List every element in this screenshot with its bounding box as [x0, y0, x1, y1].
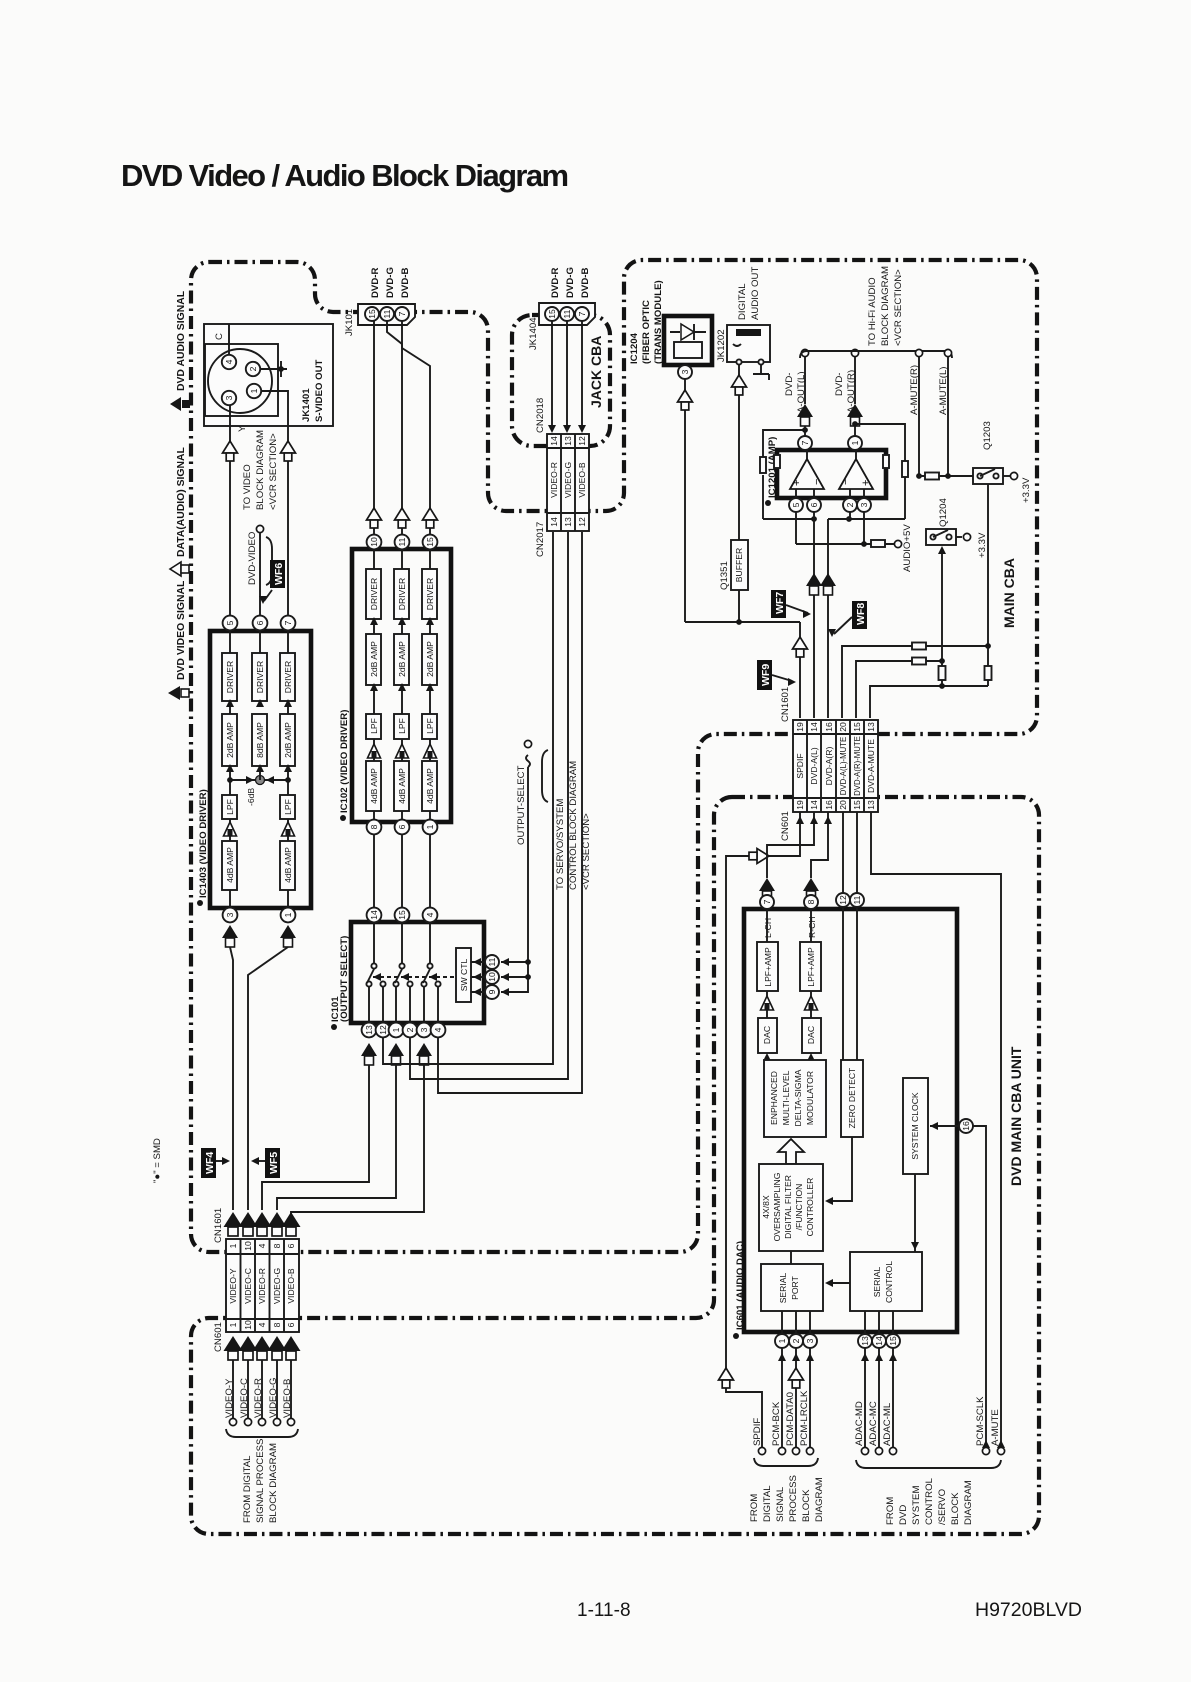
- net names VIDEO-Y VIDEO-C VIDEO-R VIDEO-G VIDEO-B: [228, 1268, 296, 1305]
- svg-text:SIGNAL PROCESS: SIGNAL PROCESS: [255, 1439, 266, 1523]
- svg-text:DVD-: DVD-: [834, 373, 845, 396]
- svg-text:VIDEO-B: VIDEO-B: [286, 1268, 296, 1304]
- svg-text:FROM: FROM: [885, 1497, 896, 1525]
- svg-text:LPF+AMP: LPF+AMP: [806, 947, 816, 987]
- svg-text:SYSTEM: SYSTEM: [911, 1486, 922, 1525]
- IC101 pin 2: [403, 1023, 418, 1038]
- svg-text:SYSTEM CLOCK: SYSTEM CLOCK: [910, 1092, 920, 1160]
- pin 11 circle: [485, 955, 499, 969]
- svg-text:11: 11: [562, 309, 572, 318]
- CN2017 pin numbers 14 13 12: [549, 517, 587, 527]
- svg-text:OVERSAMPLING: OVERSAMPLING: [772, 1172, 782, 1241]
- IC102 pin 6: [395, 820, 410, 835]
- svg-text:12: 12: [378, 1025, 388, 1035]
- signal arrow on IC1204 line: [678, 390, 693, 410]
- wire IC1403 pin3 to CN1601 pin1: [230, 947, 233, 1210]
- ground at JK1202: [753, 364, 769, 380]
- +3.3V terminal at Q1204: [956, 532, 988, 558]
- block 2dB AMP (B): [422, 634, 437, 685]
- wire pin7 to LPF+AMP L: [766, 909, 768, 942]
- label IC1201 (AMP): [765, 437, 778, 506]
- svg-text:DVD-A-MUTE: DVD-A-MUTE: [866, 739, 876, 793]
- svg-text:1: 1: [850, 440, 860, 445]
- block DRIVER (B): [422, 569, 437, 619]
- IC1204 pin 3: [678, 365, 692, 379]
- svg-text:15: 15: [397, 910, 407, 920]
- IC601 pin 12: [836, 893, 850, 907]
- wire IC102 pin1 to IC101 pin4: [429, 834, 431, 908]
- svg-text:11: 11: [397, 537, 407, 546]
- svg-text:6: 6: [809, 502, 819, 507]
- svg-text:TO Hi-Fi AUDIO: TO Hi-Fi AUDIO: [867, 277, 878, 346]
- svg-text:3: 3: [859, 502, 869, 507]
- op-amp/IC IC102 video driver box: [352, 549, 451, 822]
- wire pin2 to shell: [260, 361, 287, 377]
- IC1403 mid-chain wire: [259, 631, 261, 766]
- IC1403 pin 1: [281, 908, 296, 923]
- IC102 pin 11: [395, 535, 410, 550]
- label DIGITAL AUDIO OUT: [737, 267, 761, 320]
- svg-text:R-CH: R-CH: [807, 917, 817, 938]
- svg-text:VIDEO-R: VIDEO-R: [549, 462, 559, 498]
- svg-text:DAC: DAC: [806, 1026, 816, 1044]
- svg-text:8: 8: [369, 824, 379, 829]
- svg-text:LPF: LPF: [397, 718, 407, 734]
- label IC102 (VIDEO DRIVER): [339, 710, 350, 821]
- svg-text:16: 16: [824, 722, 834, 732]
- svg-text:BLOCK: BLOCK: [801, 1489, 812, 1522]
- wire C return line down to IC1403 pin7: [287, 425, 289, 616]
- svg-text:DVD: DVD: [898, 1505, 909, 1525]
- block 4dB AMP (G): [394, 761, 409, 811]
- svg-text:6: 6: [255, 620, 265, 625]
- wire CN601 pin16 to IC601 pin8: [803, 812, 832, 900]
- svg-text:S-VIDEO OUT: S-VIDEO OUT: [314, 359, 325, 422]
- svg-text:ADAC-MC: ADAC-MC: [868, 1401, 879, 1446]
- op-amp/IC IC1403 video driver box: [210, 631, 311, 908]
- waveform label WF4: [201, 1148, 230, 1178]
- input terminal PCM-DATA0: [785, 1392, 800, 1455]
- S-video connector body: [205, 344, 278, 416]
- svg-text:4dB AMP: 4dB AMP: [225, 847, 235, 883]
- wire CN601 pin14 to IC601 pin7: [759, 812, 818, 900]
- svg-text:DVD-B: DVD-B: [400, 268, 411, 298]
- signal arrow on DVD-A(L): [806, 573, 822, 595]
- svg-text:15: 15: [888, 1336, 898, 1346]
- block DRIVER (G): [394, 569, 409, 619]
- svg-text:1: 1: [425, 824, 435, 829]
- svg-text:15: 15: [547, 309, 557, 319]
- svg-text:WF8: WF8: [855, 603, 867, 625]
- svg-text:LPF: LPF: [283, 799, 293, 815]
- wire PCM-SCLK to pin16: [973, 1126, 986, 1447]
- svg-text:PCM-BCK: PCM-BCK: [771, 1401, 782, 1446]
- S-video pin 1: [247, 384, 261, 398]
- svg-text:3: 3: [225, 912, 235, 917]
- wires pins 12 11 into zero detect: [843, 907, 857, 1060]
- op-amp/IC IC1204 fiber optic trans module: [664, 316, 712, 365]
- svg-text:AUDIO+5V: AUDIO+5V: [902, 524, 913, 572]
- svg-text:8: 8: [806, 899, 816, 904]
- IC1403 pin 7: [281, 616, 296, 631]
- svg-text:14: 14: [549, 517, 559, 527]
- shell tie dot: [278, 366, 284, 372]
- svg-text:VIDEO-R: VIDEO-R: [253, 1378, 264, 1418]
- wire node to mid chain: [259, 766, 261, 780]
- input terminal PCM-BCK: [771, 1401, 786, 1454]
- svg-text:CONTROLLER: CONTROLLER: [805, 1178, 815, 1237]
- wire pin1 to box bottom exit: [261, 391, 288, 425]
- svg-text:4: 4: [224, 359, 234, 364]
- bracket TO Hi-Fi AUDIO: [800, 351, 952, 358]
- svg-text:JK1202: JK1202: [716, 329, 727, 362]
- svg-text:+: +: [860, 480, 872, 486]
- svg-text:11: 11: [382, 309, 392, 318]
- svg-text:WF5: WF5: [268, 1152, 280, 1174]
- svg-text:A-MUTE(R): A-MUTE(R): [909, 365, 920, 415]
- svg-text:DRIVER: DRIVER: [425, 578, 435, 610]
- signal arrow on SPDIF horizontal: [749, 849, 769, 864]
- svg-text:1: 1: [283, 912, 293, 917]
- svg-text:Q1203: Q1203: [982, 421, 993, 450]
- label TO VIDEO BLOCK DIAGRAM VCR SECTION: [242, 430, 279, 510]
- transistor Q1203 mute switch: [973, 421, 1003, 484]
- signal arrow below IC1403 pin1: [280, 925, 296, 947]
- svg-text:LPF: LPF: [425, 718, 435, 734]
- S-video pin 3: [222, 391, 236, 405]
- feedback network left: [760, 427, 817, 522]
- input terminal VIDEO-R: [253, 1378, 266, 1426]
- op-amp triangle R: [839, 459, 873, 489]
- switch 1: [366, 922, 385, 1023]
- svg-text:1: 1: [228, 1322, 238, 1327]
- svg-text:4: 4: [257, 1322, 267, 1327]
- svg-text:IC102 (VIDEO DRIVER): IC102 (VIDEO DRIVER): [339, 710, 350, 813]
- input terminal ADAC-MC: [868, 1401, 883, 1454]
- block LPF (Y): [222, 795, 237, 819]
- svg-text:6: 6: [397, 824, 407, 829]
- IC601 pin 15: [886, 1334, 900, 1348]
- block DAC L: [758, 1018, 777, 1053]
- wire JK1404 pin15 to CN2018: [548, 321, 556, 433]
- svg-text:10: 10: [487, 972, 497, 982]
- label IC101 (OUTPUT SELECT): [330, 936, 350, 1030]
- svg-text:VIDEO-G: VIDEO-G: [563, 462, 573, 499]
- svg-text:1: 1: [777, 1338, 787, 1343]
- svg-text:CONTROL: CONTROL: [924, 1477, 935, 1525]
- svg-text:3: 3: [680, 369, 690, 374]
- IC1201 pin 5: [789, 498, 803, 512]
- svg-text:/SERVO: /SERVO: [937, 1489, 948, 1525]
- svg-text:SIGNAL: SIGNAL: [775, 1486, 786, 1522]
- svg-text:DRIVER: DRIVER: [225, 661, 235, 693]
- wire PCM-LRCLK: [806, 1348, 814, 1447]
- waveform label WF7: [771, 590, 811, 618]
- svg-text:JK101: JK101: [344, 309, 355, 336]
- svg-text:CN601: CN601: [780, 811, 791, 841]
- connector JK101: [344, 304, 415, 336]
- svg-text:1-11-8: 1-11-8: [577, 1600, 631, 1621]
- IC601 pin 2: [789, 1334, 803, 1348]
- CN1601 left pin numbers 1 10 4 8 6: [228, 1241, 296, 1251]
- IC1201 pin 3: [857, 498, 871, 512]
- wires CN601 to input terminals: [233, 1360, 291, 1418]
- svg-text:15: 15: [852, 722, 862, 732]
- svg-text:LPF: LPF: [225, 799, 235, 815]
- svg-text:SPDIF: SPDIF: [795, 753, 805, 778]
- wire JK1404 pin11 to CN2018: [563, 321, 571, 433]
- wire IC101 pin3 to CN1601 pin6: [291, 1065, 424, 1214]
- svg-text:A-MUTE(L): A-MUTE(L): [938, 367, 949, 416]
- svg-text:15: 15: [367, 309, 377, 319]
- output terminal A-MUTE(L): [938, 349, 952, 476]
- signal arrow on JK1202 line: [732, 375, 747, 395]
- svg-text:CONTROL BLOCK DIAGRAM: CONTROL BLOCK DIAGRAM: [568, 761, 579, 890]
- arrow glyph for DVD VIDEO SIGNAL: [168, 686, 189, 700]
- wire op-amp pin stubs: [796, 450, 864, 498]
- wire ADAC-MC: [875, 1348, 883, 1447]
- svg-text:2dB AMP: 2dB AMP: [225, 722, 235, 758]
- block DAC R: [802, 1018, 821, 1053]
- waveform label WF6: [259, 560, 285, 604]
- svg-text:SW CTL: SW CTL: [459, 959, 469, 992]
- svg-text:IC1403 (VIDEO DRIVER): IC1403 (VIDEO DRIVER): [198, 789, 209, 898]
- IC1201 pin 1: [848, 436, 862, 450]
- decoupling resistor left edge: [774, 455, 780, 468]
- svg-text:ADAC-MD: ADAC-MD: [854, 1401, 865, 1446]
- svg-text:WF7: WF7: [774, 592, 786, 614]
- svg-text:MULTI-LEVEL: MULTI-LEVEL: [781, 1070, 791, 1125]
- svg-text:13: 13: [563, 517, 573, 527]
- svg-text:+3.3V: +3.3V: [977, 532, 988, 558]
- svg-text:(FIBER OPTIC: (FIBER OPTIC: [641, 300, 652, 364]
- IC1403 Y-chain wire: [229, 631, 231, 908]
- svg-text:4X/8X: 4X/8X: [761, 1195, 771, 1219]
- wire PCM-DATA0: [789, 1348, 804, 1447]
- svg-text:13: 13: [563, 436, 573, 446]
- svg-text:1: 1: [249, 388, 259, 393]
- svg-text:BLOCK DIAGRAM: BLOCK DIAGRAM: [255, 430, 266, 510]
- svg-text:DVD Video / Audio Block Diagra: DVD Video / Audio Block Diagram: [121, 158, 568, 193]
- svg-text:Y: Y: [237, 425, 248, 432]
- svg-text:6: 6: [286, 1322, 296, 1327]
- svg-text:15: 15: [425, 537, 435, 547]
- wire audio+5V bus: [796, 512, 902, 548]
- IC1201 pin 2: [843, 498, 857, 512]
- wire IC102 pin8 to IC101 pin14: [373, 834, 375, 908]
- IC101 pin 3: [417, 1023, 432, 1038]
- arrow glyph for DATA(AUDIO) SIGNAL: [170, 562, 189, 576]
- wire DVD-A(L) riser: [813, 512, 815, 718]
- JK1404 pin 11: [560, 307, 574, 321]
- input terminal PCM-SCLK: [975, 1396, 990, 1455]
- block LPF+AMP L: [757, 942, 778, 991]
- arrowheads into IC102 blocks: [370, 617, 434, 691]
- svg-text:DVD-R: DVD-R: [550, 268, 561, 298]
- switch 3: [421, 922, 440, 1023]
- block 4dB AMP (B): [422, 761, 437, 811]
- CN601 left pin numbers 1 10 4 8 6: [228, 1320, 296, 1330]
- wires modulator to DACs: [763, 1053, 815, 1061]
- label IC1403 (VIDEO DRIVER): [197, 789, 209, 906]
- block SYSTEM CLOCK: [903, 1078, 928, 1174]
- svg-text:15: 15: [852, 800, 862, 810]
- wire CN601 pin15 to IC601 pin11: [856, 812, 858, 893]
- svg-text:CN2017: CN2017: [535, 522, 546, 557]
- IC1201 pin 7: [798, 436, 812, 450]
- IC101 pin 1: [389, 1023, 404, 1038]
- svg-text:LPF: LPF: [369, 718, 379, 734]
- wire JK101 pin15 to IC102 pin10: [373, 321, 375, 535]
- svg-text:2: 2: [248, 366, 258, 371]
- signal arrow on R line: [367, 508, 382, 528]
- block LPF (R): [366, 714, 381, 739]
- IC1403 C-chain wire: [287, 631, 289, 908]
- svg-text:DRIVER: DRIVER: [369, 578, 379, 610]
- svg-text:BUFFER: BUFFER: [734, 548, 744, 582]
- input terminal VIDEO-B: [282, 1379, 295, 1426]
- svg-text:8: 8: [272, 1322, 282, 1327]
- block 8dB AMP (mid): [252, 714, 267, 766]
- svg-text:8: 8: [272, 1243, 282, 1248]
- svg-text:VIDEO-Y: VIDEO-Y: [224, 1378, 235, 1418]
- svg-text:DIGITAL: DIGITAL: [737, 283, 748, 320]
- block 4dB AMP (C): [280, 841, 295, 890]
- wire DVD-VIDEO to IC1403 pin6: [259, 533, 261, 616]
- svg-text:7: 7: [283, 620, 293, 625]
- svg-text:7: 7: [762, 899, 772, 904]
- amp symbol (Y): [224, 822, 237, 836]
- svg-text:3: 3: [419, 1027, 429, 1032]
- svg-text:JK1401: JK1401: [301, 388, 312, 422]
- svg-text:VIDEO-G: VIDEO-G: [268, 1377, 279, 1418]
- output terminal DVD-A-OUT(L): [784, 349, 813, 436]
- svg-text:OUTPUT-SELECT: OUTPUT-SELECT: [516, 765, 527, 845]
- arrow glyph for DVD AUDIO SIGNAL: [170, 397, 190, 411]
- svg-text:DAC: DAC: [762, 1026, 772, 1044]
- svg-text:20: 20: [838, 722, 848, 732]
- svg-text:10: 10: [369, 537, 379, 547]
- svg-text:FROM: FROM: [749, 1494, 760, 1522]
- svg-text:PCM-DATA0: PCM-DATA0: [785, 1392, 796, 1446]
- transistor Q1204 mute switch: [926, 498, 956, 545]
- svg-text:DVD-A(L): DVD-A(L): [809, 747, 819, 784]
- pin 9 circle: [485, 985, 499, 999]
- svg-text:JACK CBA: JACK CBA: [588, 336, 604, 408]
- svg-text:11: 11: [487, 957, 497, 966]
- IC102 pin 15: [423, 535, 438, 550]
- svg-text:2dB AMP: 2dB AMP: [397, 641, 407, 677]
- svg-text:VIDEO-Y: VIDEO-Y: [228, 1268, 238, 1304]
- IC101 pin 4: [423, 908, 438, 923]
- wire IC1403 pin1 to CN1601 pin10: [248, 947, 288, 1210]
- svg-text:(TRANS MODULE): (TRANS MODULE): [653, 280, 664, 364]
- svg-text:DVD-A(L)-MUTE: DVD-A(L)-MUTE: [839, 737, 848, 795]
- waveform label WF9: [757, 660, 796, 690]
- svg-text:VIDEO-G: VIDEO-G: [272, 1268, 282, 1305]
- block 4dB AMP (R): [366, 761, 381, 811]
- block 4dB AMP (Y): [222, 841, 237, 890]
- svg-text:DVD-: DVD-: [784, 373, 795, 396]
- IC101 pin 4b: [431, 1023, 446, 1038]
- label JK1401 S-VIDEO OUT: [301, 359, 325, 422]
- IC601 pin 7: [760, 895, 774, 909]
- block LPF (G): [394, 714, 409, 739]
- svg-text:13: 13: [866, 800, 876, 810]
- waveform label WF5: [251, 1148, 280, 1178]
- svg-text:16: 16: [824, 800, 834, 810]
- signal arrow on DVD-A(R): [820, 573, 836, 595]
- svg-text:DIGITAL: DIGITAL: [762, 1485, 773, 1522]
- pin 10 circle: [485, 970, 499, 984]
- svg-text:4dB AMP: 4dB AMP: [425, 768, 435, 804]
- wire ADAC-ML: [889, 1348, 897, 1447]
- svg-text:−: −: [811, 479, 823, 485]
- arrowheads into IC1403 blocks: [226, 699, 292, 772]
- svg-text:ZERO DETECT: ZERO DETECT: [847, 1067, 857, 1128]
- svg-text:/FUNCTION: /FUNCTION: [794, 1184, 804, 1231]
- svg-text:5: 5: [791, 502, 801, 507]
- block ENPHANCED MULTI-LEVEL DELTA-SIGMA MODULATOR: [764, 1060, 826, 1137]
- svg-text:CN1601: CN1601: [780, 687, 791, 722]
- amp symbol L: [761, 996, 774, 1010]
- svg-text:CONTROL: CONTROL: [884, 1261, 894, 1303]
- op-amp triangle L: [790, 459, 824, 489]
- svg-text:4dB AMP: 4dB AMP: [369, 768, 379, 804]
- IC101 pin 12: [376, 1023, 391, 1038]
- svg-text:−: −: [840, 479, 852, 485]
- IC102 pin 8: [367, 820, 382, 835]
- svg-text:2: 2: [405, 1027, 415, 1032]
- wire system clock to serial control: [911, 1174, 919, 1252]
- IC101 pin 15: [395, 908, 410, 923]
- svg-text:3: 3: [805, 1338, 815, 1343]
- IC1403 pin 6: [253, 616, 268, 631]
- feedback network right: [846, 421, 908, 522]
- JK1404 pin 15: [545, 307, 559, 321]
- svg-text:14: 14: [369, 910, 379, 920]
- connector strip CN1601/CN601 right: [793, 720, 878, 812]
- svg-text:(OUTPUT SELECT): (OUTPUT SELECT): [339, 936, 350, 1022]
- wires LPF+AMP to amp to DAC: [767, 991, 811, 1018]
- brace under video terminals: [226, 1429, 298, 1437]
- JK101 pin 7: [395, 307, 409, 321]
- svg-text:DVD-B: DVD-B: [580, 268, 591, 298]
- wire Q1204 down to mute rail: [938, 546, 946, 661]
- IC1403 pin 3: [223, 908, 238, 923]
- block DRIVER (mid): [252, 653, 267, 701]
- svg-text:DATA(AUDIO) SIGNAL: DATA(AUDIO) SIGNAL: [176, 446, 187, 557]
- brace under ADAC group: [856, 1460, 1001, 1468]
- svg-text:MODULATOR: MODULATOR: [805, 1071, 815, 1125]
- svg-text:16: 16: [961, 1121, 971, 1131]
- svg-text:4dB AMP: 4dB AMP: [397, 768, 407, 804]
- svg-text:DRIVER: DRIVER: [283, 661, 293, 693]
- svg-text:4: 4: [425, 912, 435, 917]
- IC102 B-chain wire: [429, 549, 431, 820]
- block 2dB AMP (G): [394, 634, 409, 685]
- svg-text:13: 13: [860, 1336, 870, 1346]
- svg-text:DVD-G: DVD-G: [385, 267, 396, 298]
- svg-text:DVD-R: DVD-R: [370, 268, 381, 298]
- connector JK1404: [528, 303, 595, 350]
- JK101 pin 15: [365, 307, 379, 321]
- label FROM DIGITAL SIGNAL PROCESS BLOCK DIAGRAM (left): [242, 1439, 279, 1523]
- svg-text:DRIVER: DRIVER: [255, 661, 265, 693]
- svg-text:12: 12: [577, 436, 587, 446]
- +3.3V terminal at Q1203: [1003, 472, 1032, 503]
- svg-text:7: 7: [397, 311, 407, 316]
